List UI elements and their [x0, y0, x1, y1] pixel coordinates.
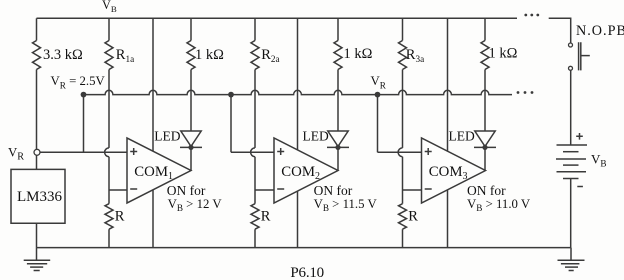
svg-text:N.O.PB: N.O.PB [576, 23, 624, 39]
svg-text:LED: LED [303, 129, 329, 144]
svg-text:ON for: ON for [314, 183, 353, 198]
svg-text:VR = 2.5V: VR = 2.5V [51, 74, 106, 90]
svg-text:ON for: ON for [167, 183, 206, 198]
svg-text:LED: LED [449, 129, 475, 144]
svg-text:3.3 kΩ: 3.3 kΩ [43, 47, 83, 63]
svg-text:R: R [408, 208, 418, 224]
svg-text:R: R [261, 208, 271, 224]
svg-text:ON for: ON for [467, 183, 506, 198]
svg-text:VB > 12 V: VB > 12 V [168, 197, 223, 213]
svg-text:1 kΩ: 1 kΩ [195, 47, 224, 63]
svg-text:COM3: COM3 [429, 164, 468, 182]
svg-text:LED: LED [154, 129, 180, 144]
svg-text:1 kΩ: 1 kΩ [344, 46, 373, 62]
svg-text:COM2: COM2 [281, 164, 320, 182]
svg-text:P6.10: P6.10 [290, 265, 324, 280]
svg-text:1 kΩ: 1 kΩ [489, 46, 518, 62]
svg-text:COM1: COM1 [134, 164, 173, 182]
svg-text:R: R [115, 208, 125, 224]
svg-text:LM336: LM336 [17, 189, 63, 205]
